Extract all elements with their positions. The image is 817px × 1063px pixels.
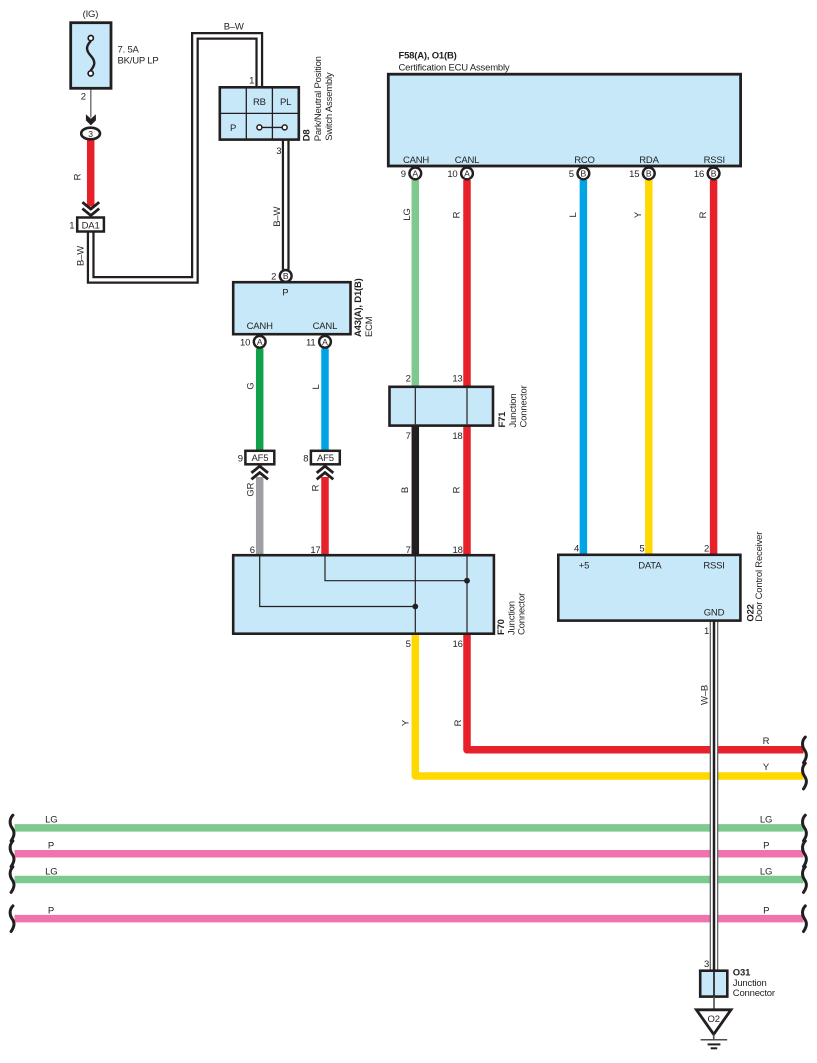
svg-text:Y: Y [633,211,644,218]
svg-text:1: 1 [69,220,74,231]
svg-text:F71: F71 [497,411,508,428]
svg-text:A: A [412,169,418,179]
wire Y yellow from F70 pin 5 down and right to break [415,634,803,777]
svg-text:R: R [452,211,463,218]
wire G green from ECM CANH to AF5 [256,349,264,452]
svg-text:16: 16 [453,639,463,650]
svg-text:11: 11 [306,337,315,348]
svg-text:B: B [646,169,652,179]
svg-text:LG: LG [402,208,413,220]
chevrons below AF5 pin 8 [317,466,334,479]
wire R red from F71 pin 18 to F70 pin 18 [463,425,471,556]
junction connector F71 [390,387,494,426]
break symbol left of LG bus 2 [10,867,14,893]
svg-text:8: 8 [303,453,308,464]
svg-text:5: 5 [406,639,411,650]
svg-text:(IG): (IG) [83,9,99,20]
wire P pink horizontal bus 2 [15,915,804,923]
door control receiver O22 [558,555,740,621]
break symbol right of LG bus 1 [803,815,807,841]
wire LG horizontal bus 2 [15,876,804,884]
svg-text:D8: D8 [302,130,313,142]
svg-text:GR: GR [246,482,257,496]
svg-text:CANL: CANL [455,155,480,166]
svg-text:R: R [698,211,709,218]
svg-text:2: 2 [704,544,709,555]
svg-text:W–B: W–B [699,685,710,705]
svg-text:Y: Y [400,719,411,726]
svg-text:3: 3 [704,959,709,970]
svg-text:2: 2 [271,272,276,283]
svg-text:R: R [452,486,463,493]
svg-text:Y: Y [763,762,770,773]
wire R red from ECU RSSI pin 16 to O22 pin 2 [710,180,718,556]
arrow into node 3 [86,114,96,125]
svg-text:R: R [73,173,84,180]
break symbol left of P bus 1 [10,841,14,867]
break symbol right of R wire [803,737,807,763]
svg-text:18: 18 [453,545,463,556]
svg-text:2: 2 [406,373,411,384]
wire from O31 to ground [713,997,715,1010]
pin 16 B circle ECU [708,168,720,180]
svg-text:BK/UP LP: BK/UP LP [118,55,159,66]
svg-text:RDA: RDA [639,155,659,166]
svg-text:PL: PL [280,97,291,108]
break symbol right of P bus 1 [803,841,807,867]
svg-text:ECM: ECM [364,316,375,337]
node 3 ellipse [81,128,100,140]
svg-text:1: 1 [704,626,709,637]
svg-text:9: 9 [401,169,406,180]
chevrons below AF5 pin 9 [251,466,268,479]
ECU box F58(A), O1(B) Certification ECU Assembly [388,74,740,166]
svg-text:R: R [453,719,464,726]
svg-text:Connector: Connector [517,593,528,635]
pin 5 B circle ECU [578,168,590,180]
svg-text:A: A [322,337,328,347]
switch assembly D8 box [220,87,299,139]
svg-text:P: P [763,906,769,917]
svg-text:B: B [711,169,717,179]
ground triangle O2 [696,1010,731,1035]
svg-text:DA1: DA1 [82,220,100,231]
svg-text:5: 5 [569,169,574,180]
wire B-W from DA1 down, right, up and over to D8 pin 1 (black with white stripe) [91,36,260,280]
wire W-B from O22 GND pin 1 down to O31 (white with black stripe) [710,621,719,973]
svg-text:CANH: CANH [403,155,429,166]
svg-text:5: 5 [639,544,644,555]
svg-text:CANL: CANL [313,321,338,332]
svg-text:AF5: AF5 [317,453,334,464]
svg-text:L: L [311,384,322,389]
svg-text:P: P [282,287,288,298]
pin 2 B circle on ECM top [280,270,292,282]
svg-text:RCO: RCO [574,155,595,166]
svg-text:RSSI: RSSI [703,560,724,571]
pin 9 A circle ECU [409,168,421,180]
svg-text:16: 16 [694,169,704,180]
connector AF5 pin 9 [245,451,274,465]
svg-text:B: B [400,487,411,493]
svg-text:B–W: B–W [76,246,87,266]
fuse 7.5A BK/UP LP [71,23,111,89]
svg-text:Switch Assembly: Switch Assembly [324,72,335,141]
svg-text:RB: RB [253,97,266,108]
svg-text:LG: LG [45,815,57,826]
junction connector O31 [700,971,727,997]
svg-text:18: 18 [452,431,462,442]
wire GR gray from AF5 to F70 pin 6 [256,477,264,556]
svg-text:P: P [230,123,236,134]
svg-text:DATA: DATA [638,560,662,571]
svg-text:A43(A), D1(B): A43(A), D1(B) [353,278,364,337]
svg-text:Certification ECU Assembly: Certification ECU Assembly [399,62,510,73]
wire R red from F70 pin 16 down and right to break [467,634,804,750]
svg-text:13: 13 [452,373,462,384]
break symbol right of Y wire [803,763,807,789]
svg-text:9: 9 [238,453,243,464]
connector DA1 [77,218,104,232]
wire B black from F71 pin 7 to F70 pin 7 [412,425,420,556]
svg-text:2: 2 [81,92,86,103]
wire Y yellow from ECU RDA pin 15 to O22 pin 5 [645,180,653,556]
svg-text:6: 6 [250,545,255,556]
svg-text:7. 5A: 7. 5A [118,45,140,56]
svg-text:7: 7 [406,431,411,442]
switch contact inside D8 [262,126,282,128]
svg-text:RSSI: RSSI [704,155,725,166]
wire LG horizontal bus 1 [15,824,804,832]
svg-text:4: 4 [574,544,579,555]
svg-text:P: P [763,840,769,851]
internal link pin 6 to pin 7 line [260,557,416,607]
svg-text:LG: LG [760,867,772,878]
svg-text:Connector: Connector [733,988,775,999]
junction connector F70 [233,555,494,634]
connector AF5 pin 8 [311,451,340,465]
svg-text:P: P [48,840,54,851]
wire L blue from ECU RCO pin 5 to O22 pin 4 [580,180,588,556]
svg-text:10: 10 [240,337,250,348]
internal link pin 17 to pin 18 line [325,557,467,581]
svg-text:B–W: B–W [224,22,244,33]
svg-text:1: 1 [249,76,254,87]
wire B-W from D8 pin 3 to ECM pin 2 (black with white stripe) [282,139,290,270]
svg-text:LG: LG [760,815,772,826]
break symbol left of P bus 2 [10,906,14,932]
ECM box A43(A), D1(B) [233,282,350,334]
svg-text:17: 17 [310,545,320,556]
svg-text:O2: O2 [708,1014,720,1025]
wire R red from ECU CANL pin 10 to F71 pin 13 [463,180,471,387]
svg-text:7: 7 [406,545,411,556]
svg-text:CANH: CANH [247,321,273,332]
svg-text:LG: LG [45,867,57,878]
chevrons into DA1 [82,202,99,215]
svg-text:GND: GND [704,608,725,619]
svg-text:+5: +5 [579,560,589,571]
svg-text:L: L [568,212,579,217]
wire R red from AF5 to F70 pin 17 [321,477,329,556]
svg-text:3: 3 [88,129,93,139]
svg-text:Connector: Connector [519,385,530,427]
svg-text:B–W: B–W [272,206,283,226]
wire LG from ECU CANH pin 9 to F71 pin 2 [412,180,420,387]
wire P pink horizontal bus 1 [15,850,804,858]
svg-text:3: 3 [276,146,281,157]
svg-text:A: A [464,169,470,179]
svg-text:15: 15 [629,169,639,180]
svg-text:Park/Neutral Position: Park/Neutral Position [313,56,324,141]
svg-text:Door Control Receiver: Door Control Receiver [754,532,765,622]
wire L blue from ECM CANL to AF5 [321,349,329,452]
svg-text:R: R [763,736,770,747]
svg-text:O31: O31 [733,967,751,978]
svg-text:G: G [246,382,257,389]
svg-text:P: P [48,906,54,917]
svg-text:B: B [283,271,289,281]
pin 10 A circle on ECM bottom [254,336,266,348]
wire: fuse lead from fuse to arrow [90,76,92,118]
wire R red from node 3 to DA1 [87,140,95,207]
svg-text:R: R [310,484,321,491]
svg-text:AF5: AF5 [251,453,268,464]
svg-text:B: B [581,169,587,179]
svg-text:Junction: Junction [508,394,519,428]
svg-text:10: 10 [447,169,457,180]
svg-text:A: A [257,337,263,347]
break symbol right of P bus 2 [803,906,807,932]
ground hatch [713,1034,715,1040]
break symbol left of LG bus 1 [10,815,14,841]
pin 10 A circle ECU [461,168,473,180]
svg-text:F58(A), O1(B): F58(A), O1(B) [399,51,457,62]
pin 15 B circle ECU [643,168,655,180]
break symbol right of LG bus 2 [803,867,807,893]
pin 11 A circle on ECM bottom [319,336,331,348]
